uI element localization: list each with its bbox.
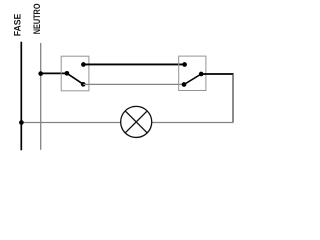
switch S2 lower contact (182, 82, 187, 87)
switch S1 lower contact (81, 82, 86, 87)
wire FASE vertical (20, 42, 22, 150)
svg-text:NEUTRO: NEUTRO (32, 4, 42, 35)
wire NEUTRO to S1 common (41, 72, 67, 74)
switch S2 box (179, 56, 206, 90)
wire lamp to right (151, 122, 233, 124)
wire S2 common to right (201, 73, 233, 75)
wire right vertical (232, 74, 234, 123)
switch S2 upper contact (182, 62, 187, 67)
wire traveller upper S1 to S2 (83, 63, 184, 65)
node FASE junction (19, 120, 24, 125)
wire FASE to lamp (21, 122, 120, 124)
switch S1 upper contact (81, 62, 86, 67)
wire traveller lower S1 to S2 (83, 83, 184, 85)
node NEUTRO junction (38, 71, 43, 76)
lamp L1 cross stroke 1 (125, 111, 147, 133)
lamp L1 cross stroke 2 (125, 111, 147, 133)
switch S1 box (61, 56, 89, 91)
svg-text:FASE: FASE (13, 14, 23, 37)
wire NEUTRO vertical (40, 43, 42, 150)
switch S1 blade (67, 73, 83, 84)
lamp L1 circle (121, 106, 152, 137)
switch S2 common terminal (199, 72, 204, 77)
switch S1 common terminal (65, 71, 70, 76)
switch S2 blade (184, 74, 201, 85)
